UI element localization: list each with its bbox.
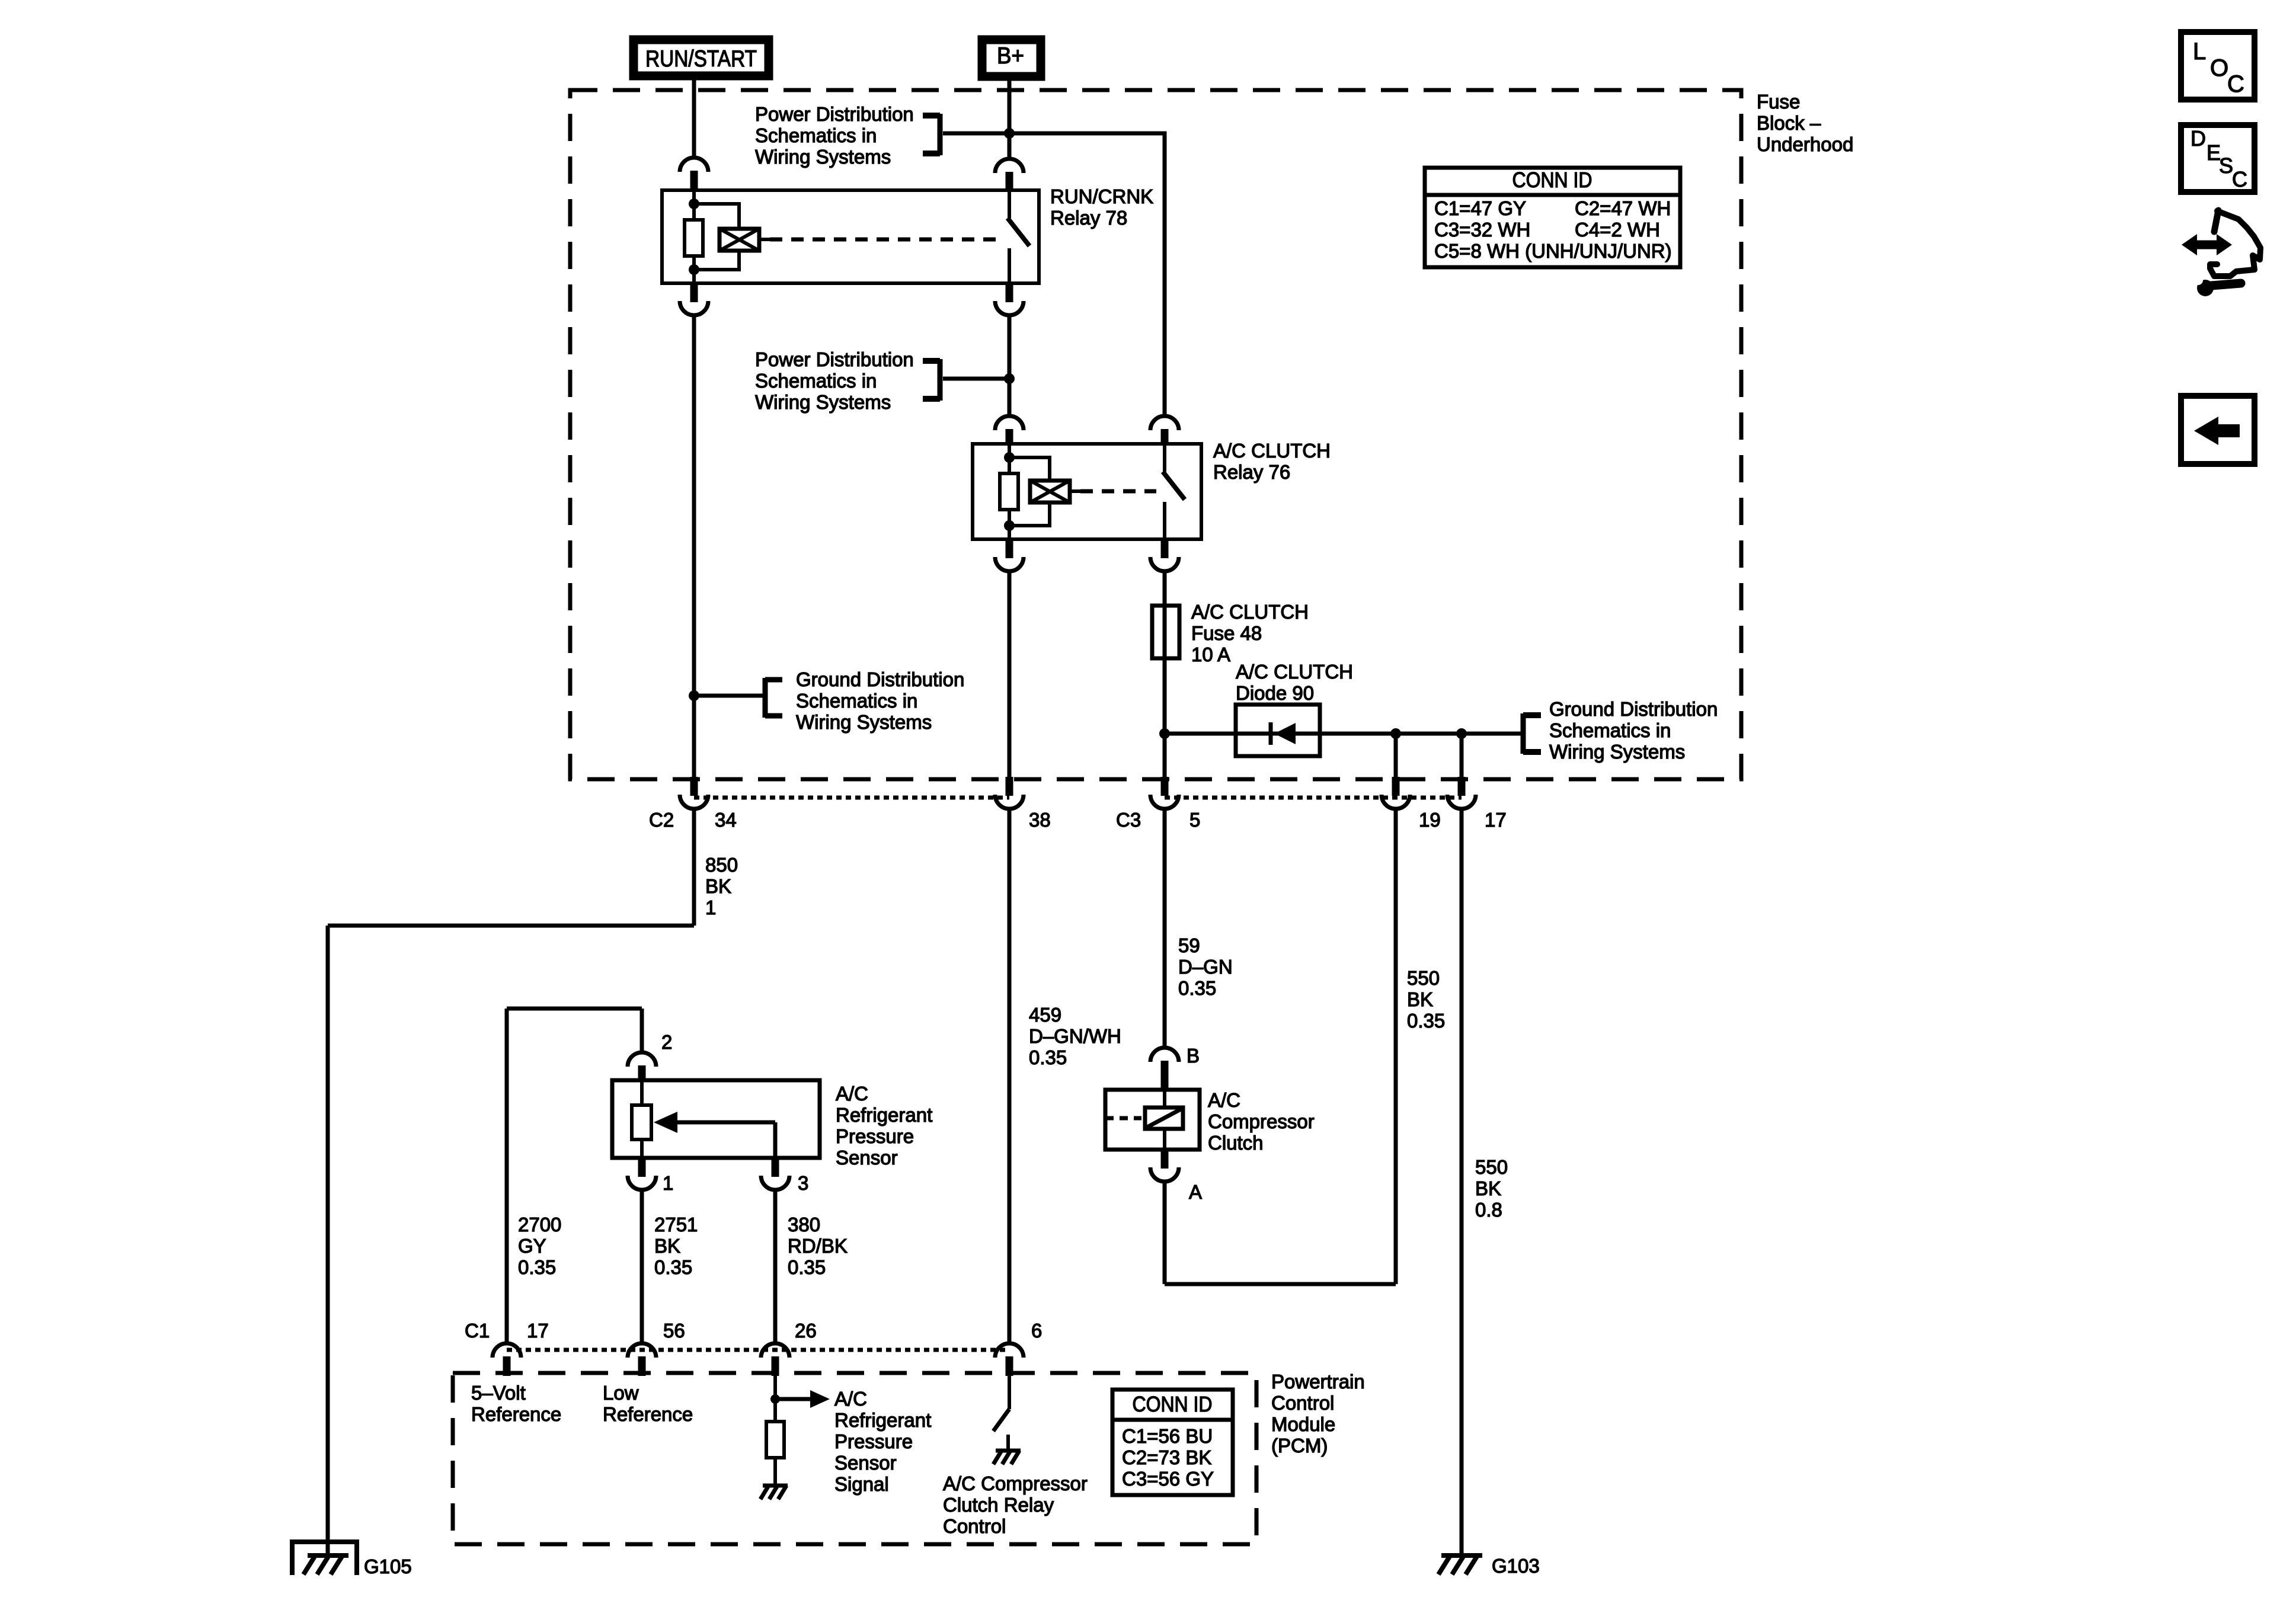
- svg-text:Reference: Reference: [603, 1403, 693, 1425]
- svg-text:Refrigerant: Refrigerant: [834, 1409, 931, 1431]
- svg-text:Clutch: Clutch: [1208, 1132, 1264, 1154]
- svg-text:550: 550: [1407, 967, 1440, 989]
- svg-text:C3=32 WH: C3=32 WH: [1434, 219, 1530, 241]
- svg-text:Wiring Systems: Wiring Systems: [755, 391, 891, 413]
- svg-text:Relay 76: Relay 76: [1213, 461, 1290, 483]
- svg-text:C: C: [2232, 167, 2247, 191]
- svg-text:Compressor: Compressor: [1208, 1110, 1315, 1132]
- svg-text:0.35: 0.35: [1178, 977, 1216, 999]
- svg-text:6: 6: [1031, 1320, 1042, 1342]
- svg-text:B+: B+: [997, 43, 1024, 69]
- svg-text:Relay 78: Relay 78: [1050, 207, 1127, 229]
- svg-text:Power Distribution: Power Distribution: [755, 348, 914, 370]
- svg-text:RUN/CRNK: RUN/CRNK: [1050, 185, 1153, 207]
- svg-text:Wiring Systems: Wiring Systems: [796, 711, 932, 733]
- svg-text:Control: Control: [943, 1515, 1006, 1537]
- svg-text:2751: 2751: [654, 1214, 698, 1235]
- svg-text:1: 1: [705, 897, 716, 918]
- svg-text:L: L: [2193, 39, 2206, 65]
- svg-text:A/C: A/C: [834, 1388, 867, 1410]
- svg-text:26: 26: [795, 1320, 817, 1342]
- svg-text:Wiring Systems: Wiring Systems: [755, 146, 891, 168]
- svg-text:GY: GY: [518, 1235, 546, 1257]
- svg-text:Schematics in: Schematics in: [755, 124, 877, 146]
- svg-text:D–GN/WH: D–GN/WH: [1029, 1025, 1121, 1047]
- svg-text:Wiring Systems: Wiring Systems: [1549, 741, 1685, 763]
- svg-text:5–Volt: 5–Volt: [471, 1382, 526, 1404]
- svg-text:19: 19: [1419, 809, 1441, 831]
- svg-text:3: 3: [798, 1172, 808, 1194]
- svg-text:Control: Control: [1271, 1392, 1334, 1414]
- svg-text:D: D: [2191, 126, 2206, 151]
- svg-text:BK: BK: [654, 1235, 680, 1257]
- svg-text:5: 5: [1189, 809, 1200, 831]
- svg-text:10 A: 10 A: [1191, 644, 1230, 665]
- svg-text:BK: BK: [1407, 988, 1433, 1010]
- svg-text:Refrigerant: Refrigerant: [836, 1104, 932, 1126]
- svg-text:Module: Module: [1271, 1413, 1335, 1435]
- svg-text:Schematics in: Schematics in: [796, 690, 917, 712]
- svg-text:Clutch Relay: Clutch Relay: [943, 1494, 1054, 1516]
- svg-text:CONN ID: CONN ID: [1512, 168, 1593, 192]
- svg-text:Pressure: Pressure: [834, 1430, 913, 1452]
- svg-text:S: S: [2219, 153, 2233, 178]
- svg-text:38: 38: [1029, 809, 1051, 831]
- svg-text:56: 56: [663, 1320, 685, 1342]
- svg-text:BK: BK: [1475, 1177, 1501, 1199]
- svg-text:Pressure: Pressure: [836, 1125, 914, 1147]
- svg-text:Underhood: Underhood: [1757, 133, 1853, 155]
- svg-text:C3: C3: [1116, 809, 1141, 831]
- svg-text:0.35: 0.35: [518, 1256, 556, 1278]
- svg-text:D–GN: D–GN: [1178, 956, 1233, 978]
- svg-text:Fuse: Fuse: [1757, 91, 1800, 113]
- svg-text:1: 1: [663, 1172, 673, 1194]
- svg-text:C1=47 GY: C1=47 GY: [1434, 197, 1526, 219]
- svg-text:Ground Distribution: Ground Distribution: [1549, 698, 1718, 720]
- svg-text:Ground Distribution: Ground Distribution: [796, 668, 964, 690]
- svg-text:380: 380: [788, 1214, 820, 1235]
- svg-text:A/C Compressor: A/C Compressor: [943, 1473, 1088, 1494]
- svg-text:A: A: [1189, 1181, 1202, 1203]
- svg-text:0.8: 0.8: [1475, 1199, 1502, 1221]
- svg-text:Block –: Block –: [1757, 112, 1821, 134]
- svg-text:C: C: [2227, 71, 2244, 97]
- svg-text:C2: C2: [649, 809, 674, 831]
- svg-text:C3=56 GY: C3=56 GY: [1122, 1468, 1214, 1490]
- svg-text:2: 2: [661, 1031, 672, 1053]
- svg-text:C4=2 WH: C4=2 WH: [1575, 219, 1660, 241]
- svg-text:17: 17: [527, 1320, 549, 1342]
- svg-text:Sensor: Sensor: [834, 1452, 897, 1474]
- svg-text:Low: Low: [603, 1382, 639, 1404]
- svg-text:2700: 2700: [518, 1214, 561, 1235]
- svg-text:A/C: A/C: [1208, 1089, 1240, 1111]
- svg-text:C5=8 WH (UNH/UNJ/UNR): C5=8 WH (UNH/UNJ/UNR): [1434, 240, 1672, 262]
- svg-text:B: B: [1187, 1045, 1200, 1067]
- svg-text:C1: C1: [465, 1320, 490, 1342]
- svg-text:G103: G103: [1492, 1555, 1540, 1577]
- svg-text:CONN ID: CONN ID: [1133, 1392, 1213, 1416]
- svg-text:0.35: 0.35: [788, 1256, 826, 1278]
- svg-text:RD/BK: RD/BK: [788, 1235, 848, 1257]
- svg-text:Signal: Signal: [834, 1473, 889, 1495]
- svg-text:Schematics in: Schematics in: [1549, 719, 1671, 741]
- svg-text:G105: G105: [364, 1555, 412, 1577]
- svg-text:0.35: 0.35: [654, 1256, 692, 1278]
- svg-text:Power Distribution: Power Distribution: [755, 103, 914, 125]
- svg-text:RUN/START: RUN/START: [645, 46, 757, 72]
- svg-text:C2=47 WH: C2=47 WH: [1575, 197, 1671, 219]
- svg-text:BK: BK: [705, 875, 731, 897]
- svg-text:A/C: A/C: [836, 1083, 868, 1105]
- svg-text:459: 459: [1029, 1004, 1061, 1026]
- svg-text:Reference: Reference: [471, 1403, 561, 1425]
- svg-text:59: 59: [1178, 934, 1200, 956]
- svg-text:34: 34: [715, 809, 737, 831]
- svg-text:Diode 90: Diode 90: [1236, 682, 1314, 704]
- svg-text:C1=56 BU: C1=56 BU: [1122, 1425, 1213, 1447]
- svg-text:O: O: [2210, 55, 2228, 81]
- svg-text:0.35: 0.35: [1407, 1010, 1445, 1032]
- svg-text:C2=73 BK: C2=73 BK: [1122, 1446, 1211, 1468]
- svg-text:A/C CLUTCH: A/C CLUTCH: [1191, 601, 1309, 623]
- svg-text:550: 550: [1475, 1156, 1508, 1178]
- svg-text:Sensor: Sensor: [836, 1147, 898, 1169]
- svg-text:Schematics in: Schematics in: [755, 370, 877, 392]
- svg-text:A/C CLUTCH: A/C CLUTCH: [1236, 661, 1353, 683]
- svg-text:850: 850: [705, 854, 738, 876]
- svg-text:Powertrain: Powertrain: [1271, 1371, 1365, 1393]
- svg-text:Fuse 48: Fuse 48: [1191, 622, 1262, 644]
- svg-text:A/C CLUTCH: A/C CLUTCH: [1213, 440, 1331, 462]
- svg-text:0.35: 0.35: [1029, 1046, 1067, 1068]
- svg-text:17: 17: [1485, 809, 1507, 831]
- svg-text:(PCM): (PCM): [1271, 1435, 1328, 1457]
